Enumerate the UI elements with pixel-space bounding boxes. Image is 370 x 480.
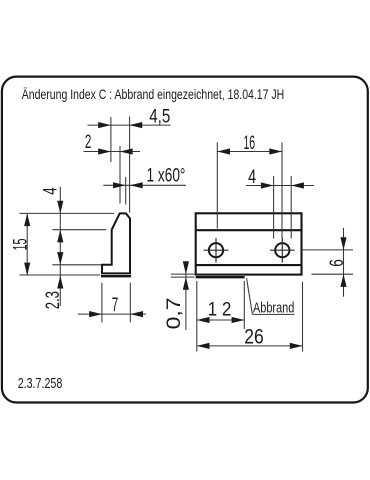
svg-text:15: 15: [10, 238, 32, 250]
svg-text:2.3.7.258: 2.3.7.258: [18, 376, 63, 392]
svg-text:Änderung Index C : Abbrand ein: Änderung Index C : Abbrand eingezeichnet…: [22, 86, 284, 102]
svg-text:1 2: 1 2: [208, 299, 232, 321]
svg-text:1 x60°: 1 x60°: [147, 164, 186, 186]
svg-text:26: 26: [244, 325, 264, 348]
svg-text:4: 4: [40, 187, 62, 194]
svg-text:0,7: 0,7: [163, 297, 185, 329]
svg-text:16: 16: [243, 132, 255, 154]
svg-text:4: 4: [248, 166, 256, 188]
svg-text:7: 7: [112, 294, 119, 316]
svg-text:Abbrand: Abbrand: [253, 299, 294, 316]
svg-text:4,5: 4,5: [149, 105, 170, 127]
svg-text:2: 2: [85, 131, 92, 153]
svg-text:2.3: 2.3: [42, 291, 64, 309]
svg-text:6: 6: [326, 259, 348, 267]
